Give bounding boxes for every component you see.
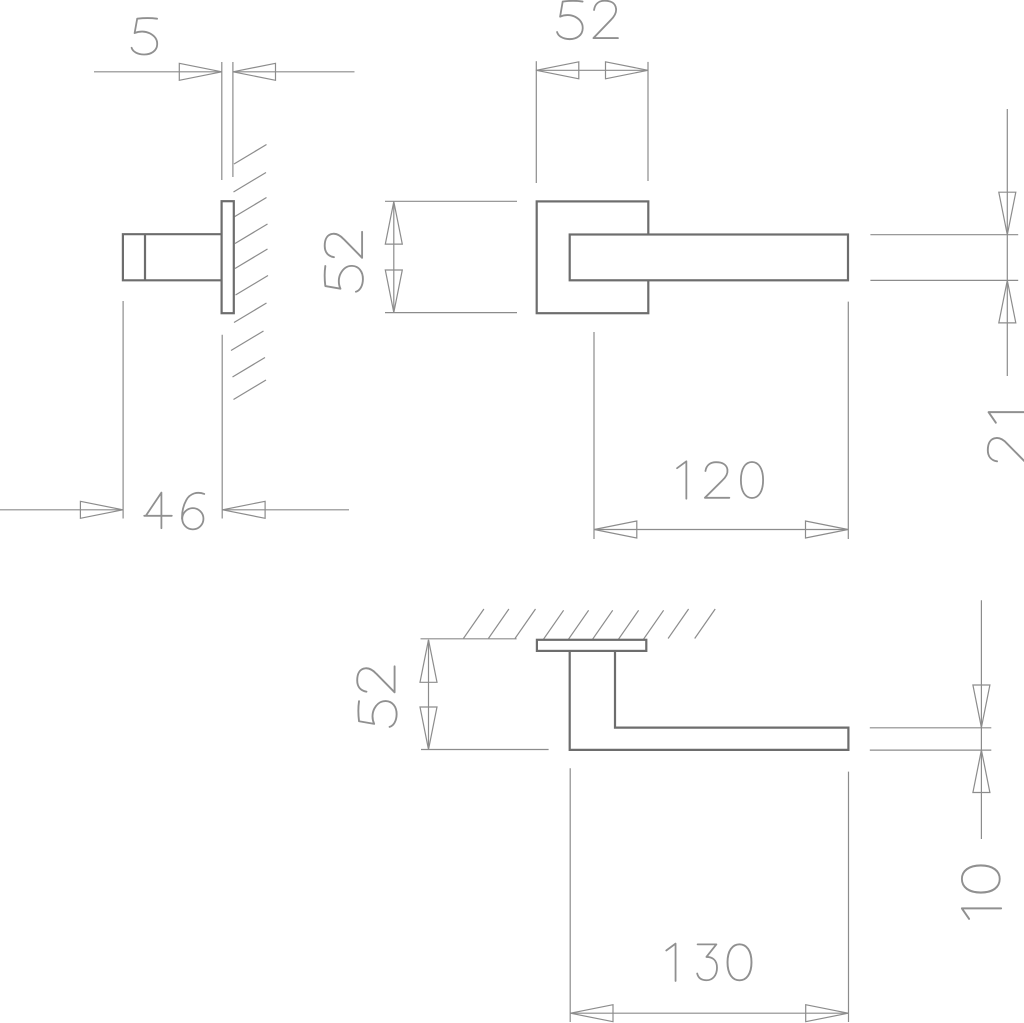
extension line 52v bottom — [385, 312, 517, 314]
extension line 52b bottom — [421, 749, 549, 751]
rotated dim text 21 — [988, 412, 1024, 462]
rotated dim text 10 — [962, 865, 1001, 918]
arrow 130 left (points left) — [571, 1005, 614, 1022]
handle L-profile — [570, 651, 849, 750]
arrow 130 right (points right) — [806, 1005, 849, 1022]
dim text 46 — [144, 493, 204, 530]
extension line 120 left — [593, 332, 595, 539]
arrow 10 bottom (points up) — [973, 750, 990, 793]
handle neck side view — [123, 234, 222, 280]
extension line 52 right — [647, 62, 649, 181]
extension line plate front — [221, 62, 223, 180]
extension line 130 left — [569, 768, 571, 1022]
dim line 5 left segment — [94, 71, 222, 73]
dim line 46 right segment — [223, 509, 349, 511]
neck divider — [144, 234, 146, 280]
extension line 21 bottom — [870, 279, 1018, 281]
extension line 10 top — [870, 727, 992, 729]
extension line door face — [232, 62, 234, 177]
rosette square front — [537, 201, 649, 313]
dim text 130 — [666, 944, 751, 981]
extension line 46 right — [221, 335, 223, 519]
dim line 5 right segment — [233, 71, 355, 73]
arrow 52 right (points right) — [606, 62, 649, 79]
wall hatching — [231, 145, 268, 400]
extension line 21 top — [870, 234, 1018, 236]
arrow 46 right (points left) — [223, 501, 266, 518]
ceiling hatching — [463, 609, 715, 640]
arrow 120 left (points left) — [594, 521, 637, 538]
rotated dim text 52 bottom — [357, 666, 396, 727]
arrow 10 top (points down) — [973, 685, 990, 728]
rotated dim text 52 (front view left) — [325, 232, 363, 292]
rosette plate side view — [222, 201, 234, 313]
extension line 46 left — [122, 301, 124, 519]
dim text 52 top — [557, 1, 618, 39]
dim text 120 — [677, 461, 763, 498]
arrow 52v top (points up) — [385, 202, 402, 245]
arrow 46 left (points right) — [80, 501, 123, 518]
extension line 52 left — [535, 61, 537, 183]
dim line 52 bottom vertical — [428, 640, 430, 747]
arrow 52b bottom (points down) — [420, 707, 437, 750]
extension line 130 right — [848, 772, 850, 1022]
dim line 52 vertical — [393, 202, 395, 313]
arrow 21 top (points down) — [999, 192, 1016, 235]
ceiling line — [421, 638, 517, 640]
arrow 52 left (points left) — [536, 62, 579, 79]
arrow 5 right (points left) — [233, 63, 276, 80]
arrow 5 left (points right) — [179, 63, 222, 80]
arrow 52b top (points up) — [420, 640, 437, 683]
dim line 10 vertical — [980, 600, 982, 839]
extension line 10 bottom — [870, 749, 992, 751]
arrow 52v bottom (points down) — [385, 270, 402, 313]
dim line 46 left segment — [0, 509, 123, 511]
dim line 21 vertical — [1006, 109, 1008, 376]
extension line 52v top — [385, 200, 517, 202]
lever front — [570, 235, 848, 281]
flange (rosette side) — [537, 640, 646, 651]
dim line 130 — [570, 1012, 848, 1014]
dim line 52 top — [536, 69, 649, 71]
arrow 120 right (points right) — [806, 521, 849, 538]
arrow 21 bottom (points up) — [999, 280, 1016, 323]
dim line 120 — [594, 529, 848, 531]
extension line 120 right — [847, 302, 849, 539]
dim text 5 — [132, 18, 158, 54]
